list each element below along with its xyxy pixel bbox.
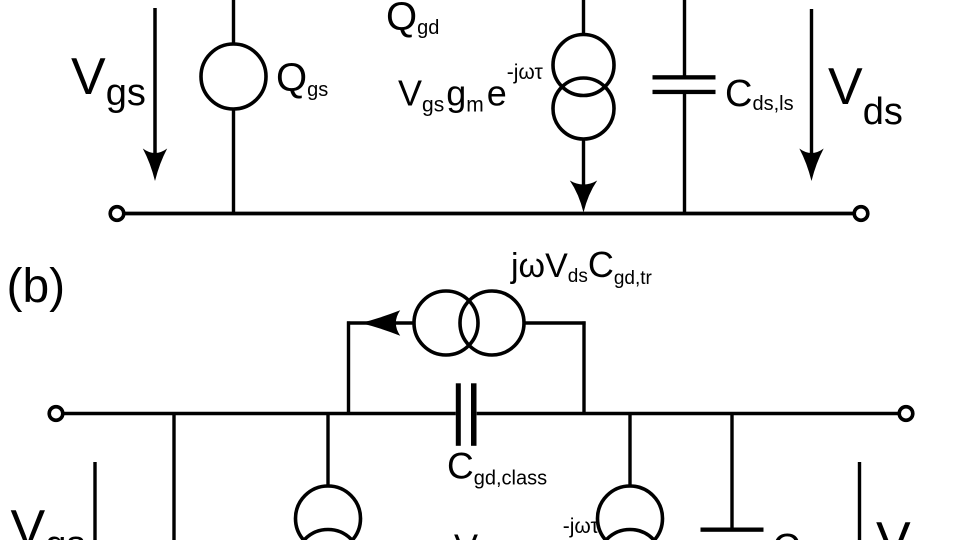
current source (a) lower circle [553, 78, 614, 139]
voltage arrow V_ds (b) shaft [858, 462, 861, 540]
current source 2 (b) lower circle (cut by edge) [598, 530, 663, 545]
wire rail to current source 2 (b) [628, 414, 631, 487]
wire rail to current source 1 (b) [326, 414, 329, 487]
capacitor C_ds,ls lower plate [653, 90, 716, 94]
capacitor C_gd,class left plate [456, 383, 461, 446]
terminal node right (b) [899, 407, 913, 421]
voltage arrow V_gs (b) shaft [93, 462, 96, 540]
current source jwV_ds C_gd,tr right circle [460, 291, 524, 355]
wire gate lead to Q_gs [232, 0, 235, 44]
top rail (b) left segment [63, 412, 456, 415]
wire right stub down to rail (b) [582, 321, 585, 414]
voltage arrow V_ds (a) head [799, 149, 823, 182]
terminal node right (a) [854, 207, 868, 221]
top rail (b) right segment [477, 412, 899, 415]
capacitor C_ds,ls upper plate [653, 75, 716, 79]
wire rail to capacitor C_ds,ls (b) [730, 414, 733, 528]
wire top lead to capacitor C_ds,ls [683, 0, 686, 76]
current source 2 (b) upper circle [598, 486, 663, 545]
terminal node left (b) [49, 407, 63, 421]
wire left stub down to rail (b) [347, 321, 350, 414]
current source 1 (b) lower circle (cut by edge) [296, 530, 361, 545]
wire current source right side [524, 321, 586, 324]
wire Q_gs to bottom rail [232, 109, 235, 213]
bottom rail (a) [124, 212, 854, 216]
wire current source to rail (a) [582, 139, 585, 189]
svg-text:(b): (b) [7, 260, 66, 313]
capacitor C_ds,ls (b) upper plate [701, 528, 764, 532]
voltage arrow V_gs (a) head [143, 149, 167, 182]
capacitor C_gd,class right plate [471, 383, 477, 446]
current source 1 (b) upper circle [296, 486, 361, 545]
wire drain lead to current source (a) [582, 0, 585, 35]
wire current source output left [347, 321, 414, 324]
wire branch Q_gs (b) [172, 414, 175, 540]
current source arrow head (b, pointing left) [361, 310, 401, 335]
charge source Q_gs (circle) [201, 44, 266, 109]
current source arrow head (a) [570, 181, 597, 213]
wire capacitor to rail (a) [683, 94, 686, 213]
voltage arrow V_gs (a) shaft [153, 8, 157, 158]
terminal node left (a) [110, 207, 124, 221]
current source (a) upper circle [553, 35, 614, 96]
current source jwV_ds C_gd,tr left circle [414, 291, 478, 355]
voltage arrow V_ds (a) shaft [810, 9, 813, 158]
